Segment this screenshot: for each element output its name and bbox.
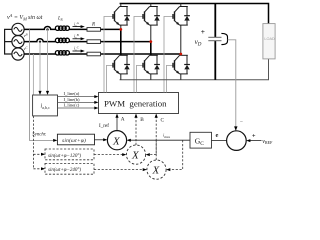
wire sin3 to X3 (dashed) — [94, 169, 144, 171]
IGBT cell S5 bottom leg2 — [143, 55, 160, 74]
PWM generation block — [99, 93, 179, 114]
IGBT cell S6 bottom leg3 — [173, 55, 190, 74]
junction dot tap B — [39, 41, 41, 43]
resistor R phase C — [87, 52, 101, 56]
svg-text:R: R — [91, 23, 95, 28]
gate drive lines leg 3 — [164, 17, 173, 93]
wire I_line(b) — [58, 101, 96, 103]
current arrow isC — [73, 45, 85, 52]
sine template block 2 (dashed) — [45, 149, 94, 160]
node C junction (red) — [179, 53, 182, 56]
svg-text:ia,b,c: ia,b,c — [41, 104, 50, 112]
svg-text:X: X — [112, 135, 121, 147]
wire I_line(a) — [58, 96, 96, 98]
svg-text:vREF: vREF — [262, 139, 273, 145]
svg-text:sin(ωt+φ−120°): sin(ωt+φ−120°) — [48, 154, 81, 159]
vref input wire — [249, 140, 262, 142]
sine template block 3 (dashed) — [45, 163, 94, 174]
vD sense wire — [228, 40, 236, 128]
wire phase C — [24, 53, 181, 55]
svg-text:PWM generation: PWM generation — [104, 99, 167, 109]
LOAD box — [263, 24, 275, 59]
current arrow isB — [73, 33, 85, 40]
i_max reference wire from Gc to X1 — [130, 139, 191, 141]
svg-text:I_ref: I_ref — [99, 122, 109, 129]
current sense wire phase A — [47, 29, 49, 91]
leg 2 midpoint wire — [150, 4, 152, 42]
IGBT cell S1 top leg1 — [113, 7, 130, 26]
IGBT cell S2 top leg2 — [143, 7, 160, 26]
gate drive lines leg 1 — [104, 17, 113, 93]
IGBT cell S4 bottom leg1 — [113, 55, 130, 74]
dashed branch to X2 right — [148, 140, 156, 154]
controller block Gc — [190, 132, 212, 148]
sine template block 1 — [57, 134, 94, 145]
svg-text:LOAD: LOAD — [264, 37, 275, 41]
wire phase B with hop — [24, 39, 151, 42]
gate drive lines leg 2 — [134, 17, 143, 93]
synchronisation tap wire from phase A — [30, 29, 55, 140]
DC top rail — [120, 4, 269, 24]
dashed branch to X3 right — [169, 140, 183, 169]
svg-text:I_line(c): I_line(c) — [64, 103, 80, 108]
AC source VC — [12, 48, 24, 60]
wire sin1 to X1 — [95, 139, 105, 141]
multiplier X1 — [107, 131, 126, 150]
wire sin2 to X2 (dashed) — [94, 154, 124, 156]
leg 3 midpoint wire — [180, 4, 182, 55]
svg-text:X: X — [152, 165, 161, 177]
svg-text:LS: LS — [57, 17, 63, 22]
node B junction (red) — [149, 40, 152, 43]
IGBT cell S3 top leg3 — [173, 7, 190, 26]
wire I_line(c) — [58, 107, 96, 109]
PWM bottom input A — [116, 117, 118, 131]
summing junction — [227, 131, 247, 151]
current sense wire phase B — [39, 42, 41, 92]
resistor R phase B — [87, 40, 101, 44]
junction dot tap A — [46, 28, 48, 30]
svg-text:A: A — [121, 117, 125, 123]
PWM bottom input B (dashed) — [135, 117, 137, 146]
DC bottom rail — [120, 59, 269, 80]
inductor Ls phase C — [55, 51, 69, 55]
svg-text:sin(ωt+φ−240°): sin(ωt+φ−240°) — [48, 168, 81, 173]
inductor Ls phase B — [55, 38, 69, 42]
svg-text:−: − — [240, 119, 243, 125]
DC bus capacitor — [214, 4, 216, 38]
current measurement block i_abc — [33, 95, 58, 116]
svg-text:Synchr.: Synchr. — [32, 133, 46, 138]
dashed sync feed line — [32, 116, 34, 169]
inductor Ls phase A — [55, 26, 69, 30]
svg-text:+: + — [252, 132, 256, 139]
svg-text:+: + — [201, 27, 205, 36]
svg-text:X: X — [131, 150, 140, 162]
svg-text:I_line(a): I_line(a) — [64, 91, 80, 96]
AC source VB — [12, 36, 24, 48]
wire sum to Gc with label e — [212, 139, 227, 141]
svg-text:B: B — [140, 117, 144, 123]
node A junction (red) — [119, 28, 122, 31]
wire phase A with hop — [24, 26, 121, 29]
neutral bus wire — [5, 29, 12, 54]
resistor R phase A — [87, 28, 101, 32]
AC source VA — [12, 23, 24, 35]
svg-text:C: C — [161, 117, 165, 123]
leg 1 midpoint wire — [120, 4, 122, 30]
svg-text:I_line(b): I_line(b) — [64, 97, 81, 102]
current sense wire phase C — [32, 54, 34, 95]
multiplier X3 (dashed) — [147, 160, 166, 179]
svg-text:e: e — [216, 132, 219, 139]
svg-text:sin(ωt+φ): sin(ωt+φ) — [62, 137, 86, 144]
multiplier X2 (dashed) — [126, 145, 145, 164]
PWM bottom input C (dashed) — [155, 117, 157, 161]
voltage sense bracket — [221, 33, 227, 44]
current arrow isA — [73, 21, 85, 28]
